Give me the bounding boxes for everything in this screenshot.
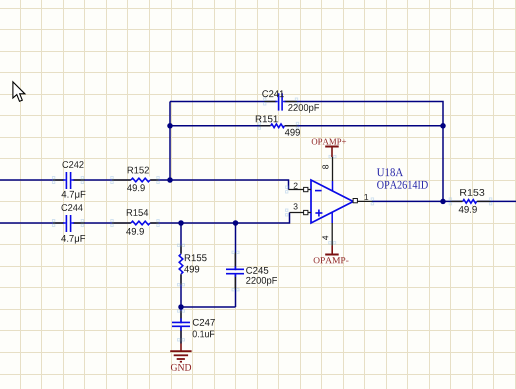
junction bottom link xyxy=(178,304,184,310)
designator label C247 xyxy=(193,319,215,326)
resistor R155 xyxy=(178,244,185,286)
wire: op-amp output run to right edge through R153 xyxy=(372,200,516,202)
wire: lower input net from left edge to op-amp pin3 jog xyxy=(0,213,290,224)
junction R151/right riser xyxy=(440,123,446,129)
designator label R151 xyxy=(256,116,278,123)
net label GND xyxy=(171,364,191,371)
U18A designator xyxy=(377,168,403,176)
power port OPAMP+ xyxy=(325,147,339,158)
capacitor C241 xyxy=(264,93,298,110)
designator label R154 xyxy=(127,209,148,216)
resistor R153 xyxy=(449,198,492,205)
pin number 1 label xyxy=(365,194,369,200)
wire: upper input net from left edge to op-amp pin2 jog xyxy=(0,180,289,190)
op-amp pin 1 (output) xyxy=(353,198,374,205)
value label 499 of R151 xyxy=(285,129,300,136)
designator label C245 xyxy=(246,267,268,274)
op-amp pin 4 (V-) xyxy=(329,212,336,245)
pin number 8 label xyxy=(322,165,328,169)
value label 4.7μF of C244 xyxy=(61,235,85,244)
value label 49.9 of R152 xyxy=(127,184,145,191)
wire: C241 feedback branch top run xyxy=(170,102,443,202)
junction C245 drop xyxy=(233,220,239,226)
value label 49.9 of R153 xyxy=(459,206,477,213)
capacitor C244 xyxy=(52,215,84,232)
ground symbol GND xyxy=(170,344,191,362)
value label 4.7μF of C242 xyxy=(62,191,86,200)
pin number 4 label xyxy=(322,236,328,240)
junction R155 drop xyxy=(178,220,184,226)
wire: bottom link R155/C245 xyxy=(181,306,236,308)
capacitor C247 xyxy=(172,310,190,344)
capacitor C245 xyxy=(226,251,244,291)
op-amp U18A triangle xyxy=(311,180,353,223)
value label 49.9 of R154 xyxy=(126,228,144,235)
wire: R151 feedback branch xyxy=(170,125,443,127)
net label OPAMP+ xyxy=(312,139,346,145)
resistor R151 xyxy=(258,122,299,129)
resistor R152 xyxy=(111,177,159,184)
op-amp pin 8 (V+) xyxy=(329,155,336,191)
wire: left vertical riser from R152 junction up to C241 branch xyxy=(169,102,171,181)
OPA2614ID comment xyxy=(377,181,428,189)
capacitor C242 xyxy=(52,172,84,189)
wire: drop to C247 xyxy=(180,307,182,344)
pin number 3 label xyxy=(294,203,298,209)
wire: drop from lower net to R155 xyxy=(180,223,182,307)
designator label C242 xyxy=(63,161,84,168)
value label 2200pF of C241 xyxy=(288,104,319,113)
junction R151/riser xyxy=(167,123,173,129)
designator label R152 xyxy=(128,167,149,174)
designator label C241 xyxy=(262,90,284,97)
pin number 2 label xyxy=(294,183,298,189)
mouse cursor xyxy=(13,82,25,102)
junction output xyxy=(440,199,446,205)
designator label R155 xyxy=(185,254,207,261)
resistor R154 xyxy=(111,220,159,227)
value label 2200pF of C245 xyxy=(246,277,277,286)
power port OPAMP- xyxy=(325,246,339,255)
junction R152/riser xyxy=(167,177,173,183)
designator label C244 xyxy=(62,204,83,211)
value label 0.1uF of C247 xyxy=(193,331,215,338)
value label 499 of R155 xyxy=(184,266,199,273)
designator label R153 xyxy=(460,189,484,196)
op-amp pin 3 (non-inverting input) xyxy=(286,209,312,216)
net label OPAMP- xyxy=(314,257,349,263)
op-amp pin 2 (inverting input) xyxy=(286,186,312,193)
wire: drop from lower net to C245 xyxy=(235,223,237,307)
